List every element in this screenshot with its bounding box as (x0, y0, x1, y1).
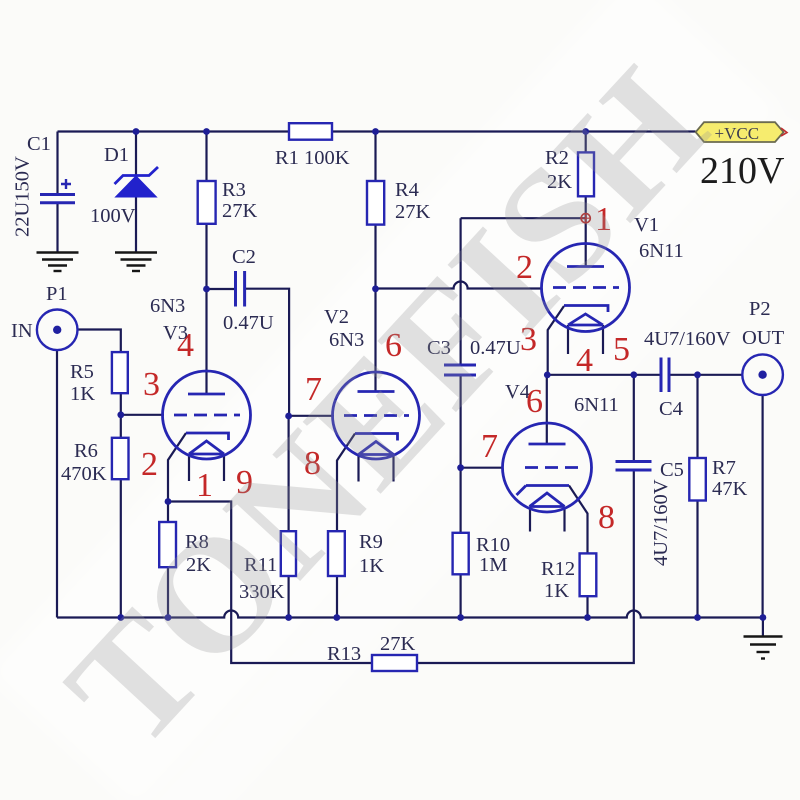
svg-text:6N11: 6N11 (574, 394, 619, 416)
svg-text:1K: 1K (544, 580, 569, 602)
svg-text:6N3: 6N3 (150, 295, 185, 317)
svg-text:5: 5 (613, 331, 630, 368)
svg-text:IN: IN (11, 320, 33, 342)
svg-text:R5: R5 (70, 361, 94, 383)
svg-text:C4: C4 (659, 398, 683, 420)
svg-text:8: 8 (598, 499, 615, 536)
svg-text:R1 100K: R1 100K (275, 147, 350, 169)
svg-text:C2: C2 (232, 246, 256, 268)
svg-text:P2: P2 (749, 298, 771, 320)
svg-text:3: 3 (143, 366, 160, 403)
svg-text:C5: C5 (660, 459, 684, 481)
svg-text:R6: R6 (74, 440, 98, 462)
svg-text:27K: 27K (380, 633, 416, 655)
svg-text:6: 6 (526, 383, 543, 420)
svg-text:1M: 1M (479, 554, 507, 576)
svg-text:100V: 100V (90, 205, 136, 227)
svg-text:R7: R7 (712, 457, 736, 479)
svg-text:R13: R13 (327, 643, 361, 665)
svg-text:C1: C1 (27, 133, 51, 155)
svg-text:R4: R4 (395, 179, 419, 201)
svg-text:0.47U: 0.47U (223, 312, 274, 334)
svg-text:4: 4 (177, 327, 194, 364)
svg-text:4U7/160V: 4U7/160V (644, 328, 731, 350)
svg-text:2: 2 (141, 446, 158, 483)
svg-text:R3: R3 (222, 179, 246, 201)
svg-text:P1: P1 (46, 283, 68, 305)
svg-text:D1: D1 (104, 144, 129, 166)
svg-text:R10: R10 (476, 534, 510, 556)
svg-text:47K: 47K (712, 478, 748, 500)
svg-text:22U150V: 22U150V (12, 156, 34, 237)
svg-text:4U7/160V: 4U7/160V (650, 479, 672, 566)
svg-text:OUT: OUT (742, 327, 785, 349)
svg-text:4: 4 (576, 342, 593, 379)
svg-text:1K: 1K (70, 383, 95, 405)
svg-text:27K: 27K (222, 200, 258, 222)
svg-text:470K: 470K (61, 463, 107, 485)
svg-text:R12: R12 (541, 558, 575, 580)
svg-text:27K: 27K (395, 201, 431, 223)
